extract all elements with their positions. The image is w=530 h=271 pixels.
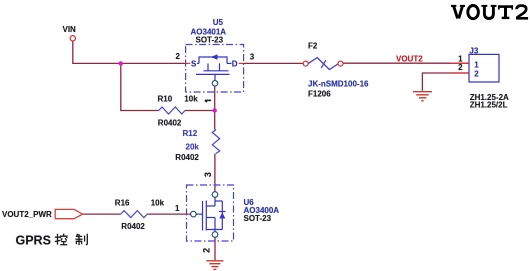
- svg-text:D: D: [232, 60, 238, 69]
- svg-text:20k: 20k: [186, 142, 200, 151]
- svg-text:R16: R16: [115, 198, 130, 207]
- svg-text:2: 2: [474, 69, 479, 78]
- svg-text:VIN: VIN: [63, 25, 77, 34]
- svg-text:ZH1.25/2L: ZH1.25/2L: [470, 100, 508, 109]
- svg-text:VOUT2_PWR: VOUT2_PWR: [2, 210, 52, 219]
- svg-text:3: 3: [250, 52, 255, 61]
- svg-text:GPRS: GPRS: [16, 233, 51, 247]
- svg-text:3: 3: [203, 172, 213, 177]
- svg-text:10k: 10k: [151, 198, 165, 207]
- svg-text:10k: 10k: [184, 95, 198, 104]
- svg-text:1: 1: [175, 204, 180, 213]
- svg-text:U5: U5: [213, 18, 224, 27]
- svg-text:R0402: R0402: [121, 222, 145, 231]
- svg-text:J3: J3: [469, 46, 478, 55]
- svg-text:SOT-23: SOT-23: [196, 36, 224, 45]
- svg-text:S: S: [191, 60, 197, 69]
- svg-text:F1206: F1206: [308, 89, 331, 98]
- svg-text:1: 1: [474, 61, 479, 70]
- svg-text:R10: R10: [158, 95, 173, 104]
- svg-text:R0402: R0402: [158, 118, 182, 127]
- svg-text:R0402: R0402: [175, 153, 199, 162]
- svg-text:2: 2: [458, 63, 463, 72]
- svg-text:VOUT2: VOUT2: [396, 54, 423, 63]
- svg-text:R12: R12: [183, 129, 198, 138]
- svg-text:JK-nSMD100-16: JK-nSMD100-16: [308, 80, 369, 89]
- svg-text:2: 2: [176, 52, 181, 61]
- svg-text:2: 2: [202, 248, 212, 253]
- svg-text:F2: F2: [308, 41, 318, 50]
- svg-text:SOT-23: SOT-23: [244, 214, 272, 223]
